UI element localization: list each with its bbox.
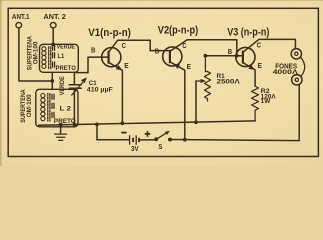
battery stub from rail bbox=[96, 124, 98, 139]
coil T2 box (SUPERTENA OM-100 lower) bbox=[36, 89, 78, 127]
transistor V3 collector line bbox=[243, 39, 296, 52]
R1 wiper arrow bbox=[196, 80, 202, 82]
phones cord arc bbox=[301, 57, 305, 76]
wire V3 base bbox=[205, 55, 242, 57]
transistor V3 emitter line bbox=[243, 63, 255, 87]
label minus bbox=[121, 132, 126, 134]
capacitor C1 (variable) bbox=[69, 85, 81, 89]
capacitor C1 bottom lead bbox=[73, 89, 75, 125]
transistor V1 collector line bbox=[109, 40, 170, 52]
svg-text:C: C bbox=[182, 41, 186, 50]
svg-text:OM-100: OM-100 bbox=[26, 94, 33, 117]
phones terminal top bbox=[291, 49, 301, 59]
coil core (lower) bbox=[48, 94, 50, 121]
node V2 collector / base wire junction bbox=[235, 54, 239, 58]
svg-text:VERDE: VERDE bbox=[59, 76, 66, 96]
paper background bbox=[0, 0, 323, 166]
svg-text:VERDE: VERDE bbox=[57, 43, 75, 50]
node C1 / rail bbox=[73, 123, 77, 127]
node ANT.1 / VERDE wire junction bbox=[50, 79, 54, 83]
transistor V2 emitter line bbox=[170, 62, 185, 140]
svg-text:E: E bbox=[258, 61, 263, 70]
node battery stub / rail bbox=[95, 123, 99, 127]
node ANT.2 / box top junction bbox=[51, 43, 55, 47]
svg-text:1W: 1W bbox=[261, 99, 271, 105]
wire ANT.2 down to coil box top bbox=[52, 28, 54, 44]
svg-text:V2(p-n-p): V2(p-n-p) bbox=[158, 24, 199, 36]
ground symbol bbox=[60, 125, 62, 134]
transistor V2 bbox=[163, 47, 182, 66]
border frame bbox=[8, 8, 318, 156]
svg-text:ANT.1: ANT.1 bbox=[12, 12, 30, 21]
antenna terminal ANT.1 bbox=[16, 22, 22, 28]
node R1 top junction bbox=[204, 54, 208, 58]
label plus bbox=[145, 131, 151, 137]
secondary winding marks (lower) bbox=[52, 94, 54, 117]
coil L1 winding bbox=[42, 47, 46, 69]
svg-text:B: B bbox=[228, 47, 232, 56]
transistor V2 collector line bbox=[170, 40, 237, 56]
svg-text:C: C bbox=[257, 41, 261, 50]
svg-text:OM-100: OM-100 bbox=[32, 41, 39, 64]
svg-text:410 µµF: 410 µµF bbox=[87, 87, 113, 93]
node V1 emitter / rail bbox=[121, 121, 125, 125]
svg-text:3V: 3V bbox=[131, 146, 139, 153]
node V2 emitter / positive rail bbox=[183, 138, 187, 142]
transistor V1 bbox=[102, 48, 121, 67]
resistor R2 120 ohm 1W bbox=[252, 86, 259, 121]
transistor V3 bbox=[236, 47, 255, 66]
svg-text:S: S bbox=[158, 144, 162, 151]
svg-text:C: C bbox=[122, 41, 126, 50]
transistor V1 emitter line bbox=[109, 62, 123, 123]
svg-text:C1: C1 bbox=[89, 80, 97, 87]
svg-text:V1(n-p-n): V1(n-p-n) bbox=[88, 27, 131, 39]
svg-text:E: E bbox=[187, 62, 192, 71]
ground rail bbox=[39, 121, 256, 125]
svg-text:PRETO: PRETO bbox=[56, 66, 77, 72]
wire VERDE link between boxes bbox=[51, 72, 53, 89]
wire box corner to V1 base bbox=[76, 57, 108, 73]
svg-text:L1: L1 bbox=[58, 53, 65, 60]
wire R1 wiper down to rail bbox=[195, 81, 197, 122]
svg-text:E: E bbox=[124, 61, 129, 70]
phones terminal bottom bbox=[292, 75, 302, 85]
svg-text:2500Λ: 2500Λ bbox=[217, 80, 240, 86]
secondary winding marks bbox=[53, 45, 55, 67]
node wiper / rail bbox=[194, 120, 198, 124]
node ground / rail bbox=[59, 123, 63, 127]
capacitor C1 top lead bbox=[73, 72, 75, 84]
svg-text:ANT. 2: ANT. 2 bbox=[44, 12, 66, 21]
coil T1 box (SUPERTENA OM-100 upper) bbox=[40, 44, 79, 72]
svg-text:L 2: L 2 bbox=[60, 106, 72, 113]
svg-text:B: B bbox=[155, 47, 159, 56]
wire ANT.1 down and right to VERDE link bbox=[19, 28, 52, 81]
antenna terminal ANT.2 bbox=[50, 22, 56, 28]
switch S bbox=[154, 137, 158, 141]
resistor R1 2500 ohm bbox=[205, 56, 211, 101]
coil L2 winding bbox=[41, 94, 45, 121]
svg-text:B: B bbox=[91, 45, 95, 54]
svg-text:4000Λ: 4000Λ bbox=[273, 69, 299, 76]
wire switch to phones (positive rail) bbox=[170, 84, 299, 140]
battery B1 3V bbox=[97, 139, 129, 141]
coil core bbox=[49, 47, 51, 70]
svg-text:V3 (n-p-n): V3 (n-p-n) bbox=[227, 26, 269, 38]
